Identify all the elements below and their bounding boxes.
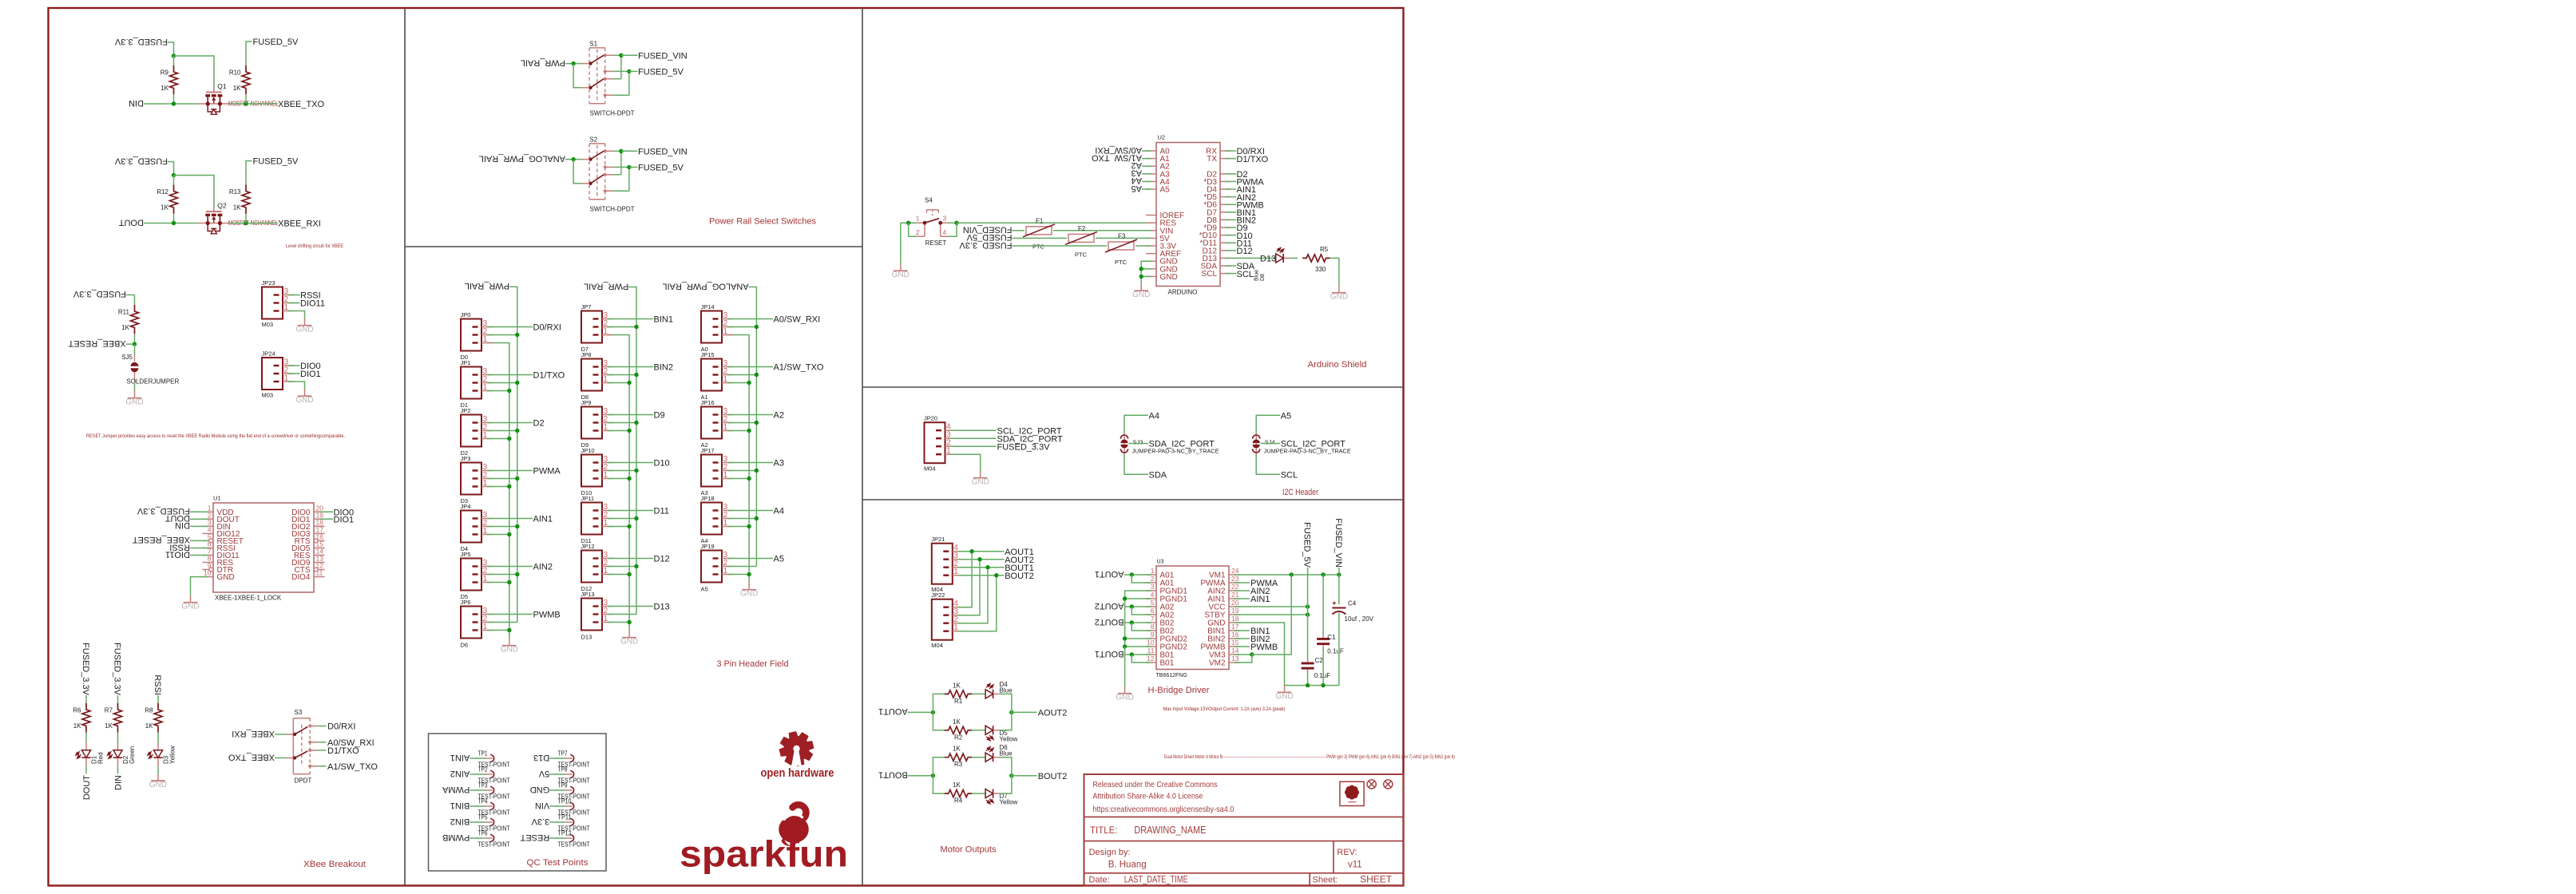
wire — [727, 422, 756, 424]
ground — [1275, 686, 1293, 701]
svg-text:A4: A4 — [701, 537, 708, 544]
wire — [1234, 638, 1250, 639]
wire — [1226, 180, 1236, 182]
junction — [627, 524, 631, 528]
svg-text:Sheet:: Sheet: — [1313, 875, 1338, 884]
svg-text:D0: D0 — [461, 354, 469, 361]
svg-text:R13: R13 — [229, 188, 241, 196]
svg-text:SCL: SCL — [1281, 470, 1298, 480]
wire — [190, 525, 208, 527]
svg-text:BOUT2: BOUT2 — [1038, 772, 1068, 781]
wire — [487, 438, 509, 440]
wire — [608, 622, 629, 623]
test point TP6 — [442, 829, 510, 848]
wire — [972, 757, 985, 758]
svg-text:C4: C4 — [1348, 600, 1357, 607]
svg-text:D1/TXO: D1/TXO — [327, 746, 359, 756]
svg-text:R9: R9 — [161, 69, 169, 77]
svg-text:D10: D10 — [581, 489, 592, 496]
connector JP15 M03 — [701, 346, 734, 391]
svg-text:RESET: RESET — [520, 833, 549, 842]
connector JP20 M04 — [924, 415, 957, 473]
wire — [487, 390, 509, 392]
open hardware logo — [761, 731, 834, 780]
svg-text:AIN1: AIN1 — [450, 753, 470, 762]
svg-text:D7: D7 — [581, 346, 589, 353]
wire — [318, 726, 327, 727]
wire — [190, 554, 208, 556]
svg-text:Max Input Voltage:15VOutput Cu: Max Input Voltage:15VOutput Current: 1.2… — [1163, 706, 1286, 712]
svg-text:DOUT: DOUT — [82, 775, 92, 800]
svg-text:DIO1: DIO1 — [300, 370, 321, 379]
svg-text:D11: D11 — [654, 507, 669, 516]
wire — [727, 558, 773, 560]
wire — [487, 614, 533, 615]
junction — [634, 421, 638, 425]
svg-text:RSSI: RSSI — [153, 674, 162, 695]
wire — [621, 54, 638, 56]
svg-text:AIN1: AIN1 — [533, 515, 553, 524]
resistor R11 1K — [118, 305, 139, 334]
svg-text:1: 1 — [604, 567, 608, 576]
svg-text:A1/SW_TXO: A1/SW_TXO — [774, 363, 824, 373]
svg-text:DPDT: DPDT — [295, 777, 312, 784]
svg-text:JP23: JP23 — [262, 279, 275, 287]
junction — [627, 69, 631, 73]
wire — [190, 540, 208, 541]
wire — [608, 526, 629, 528]
wire — [190, 518, 208, 520]
svg-text:1: 1 — [1151, 567, 1155, 575]
wire — [565, 63, 581, 65]
wire — [901, 222, 917, 223]
wire — [191, 577, 208, 595]
svg-text:REV:: REV: — [1337, 848, 1357, 857]
svg-text:1: 1 — [953, 623, 958, 632]
svg-text:BOUT2: BOUT2 — [1095, 617, 1124, 627]
wire — [727, 566, 756, 568]
wire — [1226, 204, 1236, 205]
wire — [727, 414, 773, 416]
resistor R8 1K — [145, 703, 162, 733]
svg-text:M03: M03 — [262, 321, 274, 328]
wire — [727, 366, 773, 368]
svg-text:2: 2 — [1151, 575, 1155, 583]
svg-text:1K: 1K — [953, 746, 961, 753]
svg-text:1K: 1K — [161, 204, 168, 212]
wire — [1234, 598, 1250, 599]
svg-text:PWMB: PWMB — [533, 611, 561, 620]
test point TP1 — [450, 750, 510, 768]
wire — [1125, 598, 1151, 599]
wire — [1234, 590, 1250, 591]
svg-text:PWR_RAIL: PWR_RAIL — [584, 281, 628, 291]
capacitor C1 0.1uF — [1317, 634, 1344, 655]
svg-text:BIN2: BIN2 — [450, 817, 470, 826]
svg-text:11: 11 — [316, 569, 323, 577]
wire — [629, 70, 638, 72]
svg-text:AOUT1: AOUT1 — [878, 706, 908, 716]
svg-text:BIN1: BIN1 — [654, 315, 673, 325]
junction — [747, 524, 751, 528]
junction — [954, 221, 958, 225]
ic U3 TB6612FNG — [1146, 560, 1240, 679]
svg-text:FUSED_5V: FUSED_5V — [253, 38, 299, 47]
wire — [951, 445, 997, 447]
wire — [573, 160, 581, 184]
junction — [627, 429, 631, 433]
switch S1 SWITCH-DPDT — [581, 40, 634, 117]
resistor R9 1K — [161, 65, 178, 95]
svg-text:Design by:: Design by: — [1089, 848, 1131, 857]
svg-text:GND: GND — [149, 781, 167, 789]
wire — [727, 318, 773, 320]
svg-text:JUMPER-PAD-3-NC_BY_TRACE: JUMPER-PAD-3-NC_BY_TRACE — [1264, 449, 1351, 454]
wire STBY — [1234, 614, 1308, 615]
wire — [1234, 582, 1250, 583]
ground — [125, 391, 143, 406]
wire — [1290, 257, 1298, 259]
svg-text:10: 10 — [204, 569, 212, 577]
junction — [931, 710, 935, 714]
wire — [173, 56, 175, 65]
svg-text:A5: A5 — [1281, 412, 1291, 421]
svg-text:1: 1 — [723, 423, 728, 432]
svg-text:FUSED_VIN: FUSED_VIN — [1334, 518, 1343, 568]
svg-text:1: 1 — [723, 471, 728, 480]
svg-text:TB6612FNG: TB6612FNG — [1156, 673, 1187, 678]
svg-text:4: 4 — [1151, 591, 1155, 599]
junction — [1123, 636, 1127, 640]
junction — [634, 564, 638, 568]
svg-text:TP8: TP8 — [558, 765, 568, 773]
svg-text:SHEET: SHEET — [1360, 873, 1393, 884]
junction — [634, 373, 638, 377]
wire — [727, 526, 749, 528]
wire — [173, 95, 175, 104]
svg-text:LAST_DATE_TIME: LAST_DATE_TIME — [1124, 875, 1188, 884]
junction — [1306, 604, 1310, 608]
svg-text:3: 3 — [943, 215, 947, 223]
svg-text:D9: D9 — [581, 441, 589, 449]
junction — [1306, 612, 1310, 616]
ground — [1116, 686, 1133, 702]
wire — [1338, 613, 1340, 686]
wire — [958, 568, 988, 623]
junction — [507, 628, 511, 632]
junction — [1123, 644, 1127, 648]
svg-text:B01: B01 — [1160, 659, 1175, 668]
svg-text:D13: D13 — [581, 634, 592, 641]
svg-text:+: + — [1332, 599, 1336, 607]
junction — [985, 565, 989, 569]
svg-text:ANALOG_PWR_RAIL: ANALOG_PWR_RAIL — [479, 153, 565, 163]
wire — [1252, 575, 1291, 655]
wire — [1129, 443, 1149, 445]
svg-text:SCL: SCL — [1202, 270, 1218, 279]
svg-text:XBEE_RXI: XBEE_RXI — [232, 729, 275, 738]
svg-text:7: 7 — [1151, 615, 1155, 623]
junction — [172, 221, 176, 225]
wire — [1226, 150, 1236, 152]
svg-text:FUSED_5V: FUSED_5V — [253, 157, 299, 167]
wire — [727, 462, 773, 464]
wire GND — [1234, 623, 1339, 686]
wire — [608, 510, 653, 512]
svg-text:A2: A2 — [774, 411, 784, 421]
svg-text:D6: D6 — [461, 642, 469, 649]
test point TP7 — [533, 750, 590, 768]
wire — [117, 766, 119, 773]
wire — [168, 162, 174, 176]
svg-text:SWITCH-DPDT: SWITCH-DPDT — [590, 110, 635, 117]
svg-text:5V: 5V — [538, 769, 549, 778]
junction — [133, 342, 137, 346]
wire — [608, 566, 636, 568]
wire — [319, 518, 333, 520]
wire — [933, 758, 945, 776]
svg-text:TP7: TP7 — [558, 750, 568, 757]
junction — [1130, 620, 1134, 624]
wire VM2 — [1234, 655, 1252, 663]
ground — [501, 639, 518, 654]
wire — [613, 150, 621, 152]
junction — [172, 53, 176, 57]
wire — [1096, 237, 1151, 239]
svg-text:SJ3: SJ3 — [1133, 438, 1143, 445]
svg-text:PTC: PTC — [1075, 251, 1088, 259]
wire — [1053, 230, 1151, 231]
wire — [613, 174, 621, 176]
svg-text:Released under the Creative Co: Released under the Creative Commons — [1092, 780, 1217, 789]
transistor Q1 MOSFET-NCHANNEL — [198, 82, 229, 114]
junction — [931, 773, 935, 777]
wire — [613, 190, 629, 192]
wire — [157, 695, 159, 706]
svg-text:XBee Breakout: XBee Breakout — [303, 860, 367, 869]
resistor R6 1K — [73, 703, 90, 733]
wire — [318, 742, 327, 743]
wire — [85, 733, 87, 744]
svg-text:F2: F2 — [1078, 225, 1086, 232]
junction — [1321, 572, 1325, 576]
wire — [487, 582, 509, 583]
wire — [1124, 454, 1148, 474]
svg-text:10: 10 — [1147, 639, 1155, 647]
wire — [749, 287, 757, 567]
svg-text:D13: D13 — [654, 603, 670, 612]
svg-text:PWMB: PWMB — [1250, 643, 1278, 652]
junction — [906, 221, 910, 225]
test point TP8 — [538, 765, 590, 784]
wire — [1322, 575, 1324, 635]
junction — [1321, 683, 1325, 687]
svg-text:11: 11 — [1147, 647, 1155, 655]
svg-text:9: 9 — [1151, 631, 1155, 639]
capacitor C2 0.1uF — [1302, 657, 1331, 679]
wire — [1000, 776, 1012, 793]
svg-text:BOUT1: BOUT1 — [878, 770, 908, 780]
junction — [755, 373, 759, 377]
svg-text:DIN: DIN — [175, 520, 190, 530]
svg-text:Red: Red — [97, 752, 105, 764]
resistor R5 330 — [1302, 246, 1330, 273]
wire — [288, 295, 300, 296]
resistor R1 1K — [945, 682, 972, 705]
svg-text:1: 1 — [483, 479, 488, 488]
connector JP21 M04 — [931, 536, 964, 593]
svg-text:D2: D2 — [461, 449, 469, 457]
svg-text:D10: D10 — [654, 459, 670, 469]
junction — [1306, 683, 1310, 687]
wire — [487, 574, 517, 576]
svg-text:1K: 1K — [953, 781, 961, 789]
wire — [1125, 638, 1151, 639]
led D4 Blue — [985, 681, 1013, 698]
svg-text:AOUT2: AOUT2 — [1095, 601, 1124, 611]
resistor R13 1K — [229, 185, 250, 215]
junction — [627, 620, 631, 624]
led D8 Blue — [1254, 248, 1284, 282]
svg-text:M04: M04 — [931, 642, 943, 649]
svg-text:DIO11: DIO11 — [165, 549, 190, 559]
wire — [958, 560, 980, 615]
wire VM1 — [1234, 574, 1339, 576]
wire — [608, 422, 636, 424]
resistor R7 1K — [105, 703, 122, 733]
svg-text:DIO4: DIO4 — [291, 573, 311, 582]
wire — [1124, 647, 1126, 686]
svg-text:D2: D2 — [533, 419, 545, 429]
svg-text:A2: A2 — [701, 441, 708, 449]
wire — [245, 95, 247, 104]
connector JP16 M03 — [701, 394, 734, 439]
svg-text:D13: D13 — [533, 753, 549, 762]
svg-text:1K: 1K — [233, 85, 241, 92]
svg-text:FUSED_3.3V: FUSED_3.3V — [114, 156, 168, 165]
svg-text:GND: GND — [501, 645, 518, 654]
svg-text:SCL_I2C_PORT: SCL_I2C_PORT — [1281, 440, 1345, 449]
svg-text:D13: D13 — [1260, 255, 1276, 264]
wire — [608, 478, 629, 480]
wire — [157, 733, 159, 744]
wire — [613, 78, 621, 80]
svg-text:R3: R3 — [954, 761, 963, 768]
connector JP22 M04 — [931, 591, 964, 649]
wire — [613, 94, 629, 96]
svg-text:13: 13 — [1231, 655, 1239, 663]
svg-text:A5: A5 — [774, 555, 784, 564]
wire — [1226, 250, 1236, 251]
wire — [608, 374, 636, 376]
wire — [487, 334, 517, 336]
svg-text:TEST-POINT: TEST-POINT — [478, 841, 510, 848]
wire — [1226, 257, 1276, 259]
junction — [627, 381, 631, 385]
wire — [908, 711, 933, 713]
svg-text:GND: GND — [181, 602, 199, 611]
wire — [487, 430, 517, 432]
svg-text:24: 24 — [1231, 567, 1239, 575]
sparkfun logo flame — [779, 805, 809, 845]
svg-text:DOUT: DOUT — [119, 217, 144, 227]
wire — [1330, 258, 1339, 286]
junction — [619, 149, 623, 153]
svg-text:A5: A5 — [1160, 186, 1171, 195]
junction — [515, 333, 519, 337]
wire — [173, 215, 175, 223]
connector JP10 M03 — [581, 441, 614, 487]
svg-text:1: 1 — [604, 375, 608, 384]
svg-text:17: 17 — [1231, 623, 1239, 631]
junction — [1009, 710, 1013, 714]
svg-text:1: 1 — [604, 423, 608, 432]
wire — [1141, 268, 1151, 270]
svg-text:open hardware: open hardware — [761, 767, 834, 780]
svg-text:Attribution Share-Alike 4.0 Li: Attribution Share-Alike 4.0 License — [1092, 791, 1203, 801]
wire — [1226, 212, 1236, 213]
junction — [515, 524, 519, 528]
wire — [1226, 242, 1236, 243]
wire — [1012, 711, 1037, 713]
connector JP7 M03 — [581, 303, 614, 343]
wire — [1256, 454, 1280, 474]
svg-text:SDA: SDA — [1149, 470, 1167, 480]
wire — [608, 614, 636, 615]
test point TP12 — [520, 829, 589, 848]
wire — [958, 551, 1005, 552]
svg-text:D0/RXI: D0/RXI — [533, 323, 561, 333]
wire — [1131, 575, 1151, 583]
wire — [1322, 648, 1324, 686]
svg-text:S2: S2 — [589, 136, 597, 143]
wire — [608, 430, 629, 432]
wire — [487, 326, 533, 328]
wire — [1124, 654, 1151, 655]
junction — [571, 157, 575, 161]
svg-text:PTC: PTC — [1032, 243, 1045, 251]
svg-text:19: 19 — [1231, 607, 1239, 615]
wire — [628, 71, 630, 95]
solder jumper SJ5 — [121, 354, 179, 386]
connector JP24 M03 — [262, 350, 295, 399]
svg-text:C2: C2 — [1315, 657, 1324, 664]
wire — [1131, 655, 1151, 663]
resistor R2 1K — [945, 718, 972, 742]
wire — [727, 510, 773, 512]
wire — [487, 518, 533, 520]
svg-text:Blue: Blue — [1000, 686, 1013, 694]
svg-text:1K: 1K — [233, 204, 241, 212]
wire — [608, 414, 653, 416]
svg-text:1: 1 — [483, 335, 488, 344]
led D2 Green — [108, 743, 136, 766]
svg-text:ANALOG_PWR_RAIL: ANALOG_PWR_RAIL — [662, 281, 748, 291]
svg-text:A5: A5 — [1131, 184, 1142, 193]
svg-text:I2C Header: I2C Header — [1282, 488, 1318, 497]
junction — [1123, 596, 1127, 600]
wire — [117, 695, 119, 706]
svg-text:VM2: VM2 — [1209, 659, 1226, 668]
wire — [1142, 188, 1151, 190]
svg-text:GND: GND — [740, 589, 758, 598]
wire VM3 — [1234, 654, 1252, 655]
wire PGND — [1125, 591, 1151, 647]
svg-text:16: 16 — [1231, 631, 1239, 639]
svg-text:15: 15 — [1231, 639, 1239, 647]
wire — [1124, 606, 1151, 607]
svg-text:TP5: TP5 — [478, 813, 488, 821]
